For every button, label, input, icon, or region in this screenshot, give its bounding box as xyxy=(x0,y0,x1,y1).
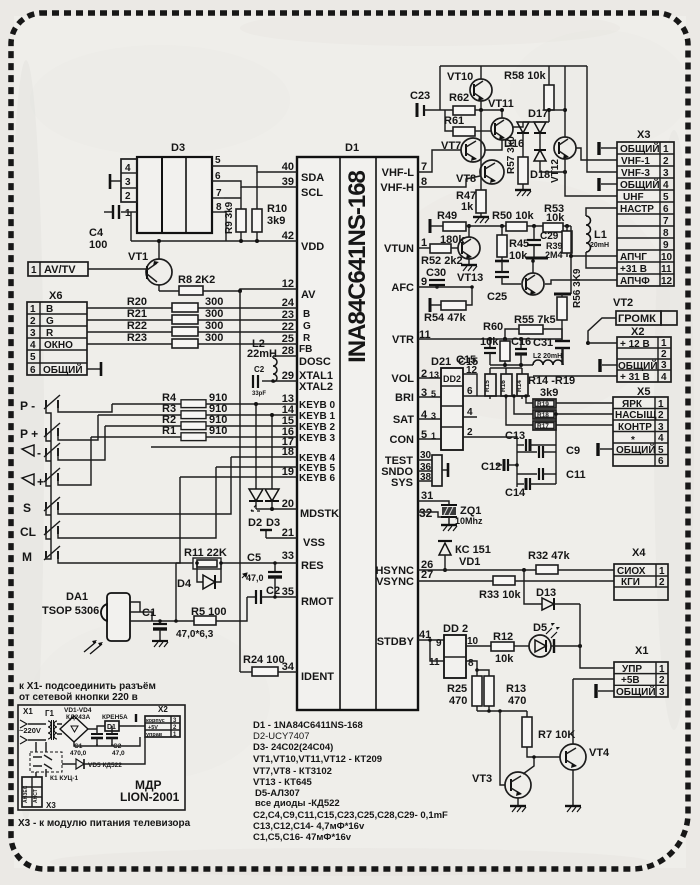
ground bar X3 pin1 xyxy=(599,142,617,155)
svg-text:8: 8 xyxy=(468,658,474,669)
svg-text:корпус: корпус xyxy=(146,718,165,724)
svg-text:MDSTK: MDSTK xyxy=(300,508,339,520)
svg-text:C2: C2 xyxy=(266,585,280,597)
svg-text:SDA: SDA xyxy=(301,172,324,184)
wire KEYB5 row to IC xyxy=(216,466,297,468)
svg-text:M: M xyxy=(22,550,32,564)
svg-text:R18: R18 xyxy=(537,412,549,419)
svg-text:L1: L1 xyxy=(594,229,607,241)
wire +5V row to X1 xyxy=(573,678,614,680)
svg-text:10Mhz: 10Mhz xyxy=(455,516,483,526)
svg-text:C13: C13 xyxy=(505,430,525,442)
wire SCL node to pin7 area xyxy=(224,197,241,199)
svg-text:INA84C641NS-168: INA84C641NS-168 xyxy=(344,170,371,362)
svg-text:2: 2 xyxy=(125,191,131,202)
svg-text:C2,C4,C9,C11,C15,C23,C25,C28,C: C2,C4,C9,C11,C15,C23,C25,C28,C29- 0,1mF xyxy=(253,810,448,821)
resistor R8 2K2 xyxy=(159,274,297,295)
transistor VT4 xyxy=(560,679,610,812)
wires DD2 right pins xyxy=(463,374,530,441)
svg-text:СИОХ: СИОХ xyxy=(617,566,646,577)
transistor VT1 xyxy=(88,239,172,291)
svg-text:R: R xyxy=(303,333,311,344)
connector X1 mains label xyxy=(19,707,41,744)
connector AV/TV box xyxy=(28,262,88,276)
wire KEYB4 row to IC xyxy=(231,456,297,458)
svg-text:3k9: 3k9 xyxy=(540,387,558,399)
svg-text:5: 5 xyxy=(663,192,669,203)
svg-text:АНСТ: АНСТ xyxy=(33,789,39,803)
svg-text:2: 2 xyxy=(661,349,667,360)
diode D16 xyxy=(504,122,529,157)
svg-text:VT10: VT10 xyxy=(447,71,473,83)
svg-text:7: 7 xyxy=(663,216,669,227)
svg-text:C31: C31 xyxy=(533,337,553,349)
svg-text:R16: R16 xyxy=(500,380,507,392)
resistor R57 3k0 xyxy=(506,136,531,196)
connector X5 xyxy=(613,386,668,467)
svg-text:P +: P + xyxy=(20,427,38,441)
svg-text:3k9: 3k9 xyxy=(267,215,285,227)
connector X2 of module xyxy=(145,705,180,738)
svg-text:VHF-L: VHF-L xyxy=(382,167,415,179)
svg-text:1: 1 xyxy=(659,566,665,577)
resistor R18 boxed xyxy=(512,394,613,419)
svg-text:4: 4 xyxy=(30,340,36,351)
svg-text:10k: 10k xyxy=(495,653,514,665)
svg-text:VHF-H: VHF-H xyxy=(380,182,414,194)
svg-text:24: 24 xyxy=(282,297,295,309)
svg-text:40: 40 xyxy=(282,161,294,173)
svg-text:управ: управ xyxy=(146,732,163,738)
capacitor C16 xyxy=(511,336,531,365)
ground tick at D3 pin3 xyxy=(110,174,121,189)
DD2 right pin numbers xyxy=(466,365,478,438)
capacitor C31 xyxy=(533,337,570,365)
wire +12V to X2 xyxy=(586,341,617,345)
svg-text:КС 151: КС 151 xyxy=(455,544,491,556)
wire KEYB6 row to IC xyxy=(180,476,297,478)
svg-text:X3: X3 xyxy=(637,129,650,141)
svg-text:6: 6 xyxy=(663,204,669,215)
svg-text:R14: R14 xyxy=(516,380,523,392)
svg-text:11: 11 xyxy=(661,264,672,275)
connector X3 xyxy=(617,129,674,287)
svg-text:Г1: Г1 xyxy=(45,709,55,718)
button P- xyxy=(20,395,60,413)
svg-text:К1 КУЦ-1: К1 КУЦ-1 xyxy=(50,775,78,782)
svg-text:33pF: 33pF xyxy=(252,391,266,397)
resistor R9 3k9 xyxy=(224,187,246,243)
resistor R5 100 xyxy=(191,606,226,625)
common button bus wire xyxy=(46,408,51,559)
svg-text:3: 3 xyxy=(663,168,669,179)
svg-text:X1: X1 xyxy=(635,645,648,657)
resistor R14 boxed xyxy=(490,368,528,399)
pin labels right column of D1 xyxy=(375,167,414,648)
ground bar X5 pin5 xyxy=(598,443,613,456)
wire C4/pin1 down to VDD rail xyxy=(130,212,132,241)
svg-text:100: 100 xyxy=(89,239,107,251)
svg-text:R60: R60 xyxy=(483,321,503,333)
svg-text:18: 18 xyxy=(282,446,294,458)
svg-text:C13,C12,C14- 4,7мФ*16v: C13,C12,C14- 4,7мФ*16v xyxy=(253,821,365,832)
wire STDBY row xyxy=(418,639,444,641)
svg-text:+ 31 В: + 31 В xyxy=(620,372,650,383)
svg-text:180k: 180k xyxy=(440,234,465,246)
svg-text:R20: R20 xyxy=(127,296,147,308)
svg-text:R21: R21 xyxy=(127,308,147,320)
svg-text:CL: CL xyxy=(20,525,36,539)
vertical bus through VT7 VT8 xyxy=(480,110,482,190)
wire vol+ to KEYB3 row xyxy=(58,437,91,485)
svg-text:D3- 24C02(24C04): D3- 24C02(24C04) xyxy=(253,742,333,753)
wire DD2 pin8 to resistors xyxy=(466,658,489,676)
wire X3 APCHG xyxy=(571,255,617,257)
svg-text:C5: C5 xyxy=(247,552,261,564)
capacitor C12 xyxy=(481,459,519,473)
svg-text:47,0*6,3: 47,0*6,3 xyxy=(176,629,214,640)
svg-text:+31 В: +31 В xyxy=(620,264,647,275)
svg-text:D2: D2 xyxy=(248,517,262,529)
svg-text:C23: C23 xyxy=(410,90,430,102)
svg-text:C2: C2 xyxy=(254,365,265,374)
svg-text:X6: X6 xyxy=(49,290,62,302)
svg-text:23: 23 xyxy=(282,309,294,321)
wire resistor bottoms xyxy=(477,710,527,712)
svg-text:ОБЩИЙ: ОБЩИЙ xyxy=(616,685,656,698)
svg-text:VD1: VD1 xyxy=(459,556,480,568)
resistor R58 10k xyxy=(504,66,554,122)
svg-text:VT13 - КТ645: VT13 - КТ645 xyxy=(253,777,313,788)
wire VT12 to X3 VHF-1 xyxy=(576,148,617,160)
LED D5 xyxy=(529,622,582,657)
svg-text:42: 42 xyxy=(282,230,294,242)
resistor R11 22K xyxy=(176,547,297,569)
svg-text:AFC: AFC xyxy=(391,282,414,294)
svg-text:1: 1 xyxy=(31,265,37,276)
svg-text:LION-2001: LION-2001 xyxy=(120,790,180,804)
svg-text:ОБЩИЙ: ОБЩИЙ xyxy=(616,443,656,456)
resistor R22 300 xyxy=(87,320,297,336)
zener diode VD1 KC151 xyxy=(438,541,491,572)
inductor L2 22mH xyxy=(247,338,297,382)
svg-text:R: R xyxy=(46,328,54,339)
svg-text:RES: RES xyxy=(301,560,324,572)
svg-text:KEYB 3: KEYB 3 xyxy=(299,433,336,444)
svg-text:DA1: DA1 xyxy=(66,591,88,603)
svg-text:АПЧГ: АПЧГ xyxy=(620,252,647,263)
svg-text:-: - xyxy=(37,446,41,460)
IC block DD2 standby xyxy=(428,623,468,678)
connector X2 xyxy=(617,326,671,383)
svg-text:Х3 - к модулю питания телевизо: Х3 - к модулю питания телевизора xyxy=(18,818,191,829)
svg-text:Х2: Х2 xyxy=(158,705,168,714)
svg-text:29: 29 xyxy=(282,370,294,382)
inductor L2 20mH xyxy=(533,348,563,365)
svg-text:20mH: 20mH xyxy=(590,242,609,249)
svg-text:C4: C4 xyxy=(89,227,104,239)
svg-text:+5V: +5V xyxy=(148,725,158,731)
wire pin8 down to VDD rail xyxy=(225,212,227,241)
resistor R20 300 xyxy=(87,296,297,312)
wire P+ to KEYB1 row xyxy=(58,415,98,440)
resistor R39 2M4 xyxy=(545,224,572,260)
svg-text:ОБЩИЙ: ОБЩИЙ xyxy=(618,359,658,372)
IC block DD2 (D21) xyxy=(431,356,478,450)
svg-text:VT7,VT8 - КТ3102: VT7,VT8 - КТ3102 xyxy=(253,766,332,777)
svg-text:31: 31 xyxy=(421,490,433,502)
wire UPR to X1 xyxy=(580,604,614,668)
svg-text:R54 47k: R54 47k xyxy=(424,312,466,324)
wires from DA1 xyxy=(130,602,160,621)
capacitor C15 xyxy=(456,337,496,366)
ground bar under C29 xyxy=(526,257,548,260)
diode D18 xyxy=(530,150,567,181)
svg-text:C25: C25 xyxy=(487,291,507,303)
svg-text:AV/TV: AV/TV xyxy=(44,264,76,276)
svg-text:R45: R45 xyxy=(509,238,529,250)
wire VTR row xyxy=(418,338,562,340)
svg-text:UHF: UHF xyxy=(623,192,644,203)
long vertical AV bus wire xyxy=(239,291,241,672)
svg-text:47,0: 47,0 xyxy=(112,750,125,757)
svg-text:ОБЩИЙ: ОБЩИЙ xyxy=(43,363,83,376)
svg-text:C1,C5,C16- 47мФ*16v: C1,C5,C16- 47мФ*16v xyxy=(253,832,352,843)
svg-text:VSS: VSS xyxy=(303,537,325,549)
svg-text:300: 300 xyxy=(205,332,223,344)
svg-text:AV: AV xyxy=(301,289,316,301)
wire supply row to R5 xyxy=(160,597,247,621)
svg-text:D1 - 1NA84C6411NS-168: D1 - 1NA84C6411NS-168 xyxy=(253,720,363,731)
svg-text:SYS: SYS xyxy=(391,477,413,489)
svg-text:R11 22K: R11 22K xyxy=(184,547,227,559)
svg-text:VDD: VDD xyxy=(301,241,324,253)
svg-text:R9 3k9: R9 3k9 xyxy=(224,201,235,234)
resistor R52 2k2 xyxy=(418,244,463,267)
svg-text:ОБЩИЙ: ОБЩИЙ xyxy=(620,178,660,191)
svg-text:C9: C9 xyxy=(566,445,580,457)
button volume plus xyxy=(22,468,60,489)
diode D3 xyxy=(265,413,280,529)
svg-text:KEYB 2: KEYB 2 xyxy=(299,422,336,433)
svg-text:10k: 10k xyxy=(480,336,499,348)
resistor R17 boxed xyxy=(504,394,613,430)
svg-text:D4: D4 xyxy=(177,578,192,590)
svg-text:УПР: УПР xyxy=(622,664,642,675)
svg-text:3: 3 xyxy=(659,687,665,698)
svg-text:1: 1 xyxy=(421,237,427,249)
svg-text:4: 4 xyxy=(658,433,664,444)
svg-text:5: 5 xyxy=(30,352,36,363)
resistor R2 910 on KEYB2 xyxy=(105,414,297,430)
svg-text:1: 1 xyxy=(663,144,669,155)
svg-text:1: 1 xyxy=(661,338,667,349)
svg-text:XTAL2: XTAL2 xyxy=(299,381,333,393)
resistor R3 910 on KEYB1 xyxy=(98,403,297,419)
capacitor C2 on RMOT pin35 xyxy=(247,585,297,604)
resistor R23 300 xyxy=(87,332,297,348)
svg-text:C11: C11 xyxy=(566,469,586,481)
svg-text:R62: R62 xyxy=(449,92,469,104)
svg-text:R23: R23 xyxy=(127,332,147,344)
svg-text:FB: FB xyxy=(299,344,312,355)
svg-text:300: 300 xyxy=(205,320,223,332)
svg-text:R52 2k2: R52 2k2 xyxy=(421,255,463,267)
svg-text:D2-UCY7407: D2-UCY7407 xyxy=(253,731,310,742)
vertical wire R11 to supply row xyxy=(175,563,177,621)
svg-text:22mH: 22mH xyxy=(247,348,277,360)
svg-text:DD 2: DD 2 xyxy=(443,623,468,635)
svg-text:12: 12 xyxy=(661,276,673,287)
svg-text:B: B xyxy=(46,304,53,315)
wire D3 pin6 to SCL xyxy=(212,181,297,187)
wire lower filter row xyxy=(490,364,533,366)
right cap bus wire xyxy=(555,414,557,484)
svg-text:R58 10k: R58 10k xyxy=(504,70,546,82)
svg-text:R19: R19 xyxy=(537,401,549,408)
capacitor C23 xyxy=(410,90,453,117)
IR receiver DA1 TSOP 5306 xyxy=(42,591,130,654)
module label MDP LION-2001 xyxy=(120,778,180,804)
svg-text:+5В: +5В xyxy=(621,675,640,686)
diode VD5 KD522 xyxy=(62,737,145,769)
ground bar before X2 xyxy=(136,714,145,726)
capacitor C29 xyxy=(527,224,559,257)
svg-text:20: 20 xyxy=(282,498,294,510)
svg-text:12: 12 xyxy=(282,278,294,290)
svg-text:4: 4 xyxy=(661,372,667,383)
svg-text:2: 2 xyxy=(30,316,36,327)
resistor R24 100 xyxy=(240,654,297,676)
resistor R60 10k xyxy=(480,321,510,365)
connector X3 of module xyxy=(22,769,56,810)
svg-text:STDBY: STDBY xyxy=(377,636,415,648)
svg-text:R25: R25 xyxy=(447,683,467,695)
svg-text:10k: 10k xyxy=(509,250,528,262)
svg-text:300: 300 xyxy=(205,308,223,320)
capacitor C25 xyxy=(487,261,521,303)
svg-text:C30: C30 xyxy=(426,267,446,279)
svg-text:CON: CON xyxy=(390,434,415,446)
svg-text:1: 1 xyxy=(659,664,665,675)
resistor R47 1k xyxy=(456,190,489,223)
svg-text:VT1,VT10,VT11,VT12 - КТ209: VT1,VT10,VT11,VT12 - КТ209 xyxy=(253,754,382,765)
diode D13 xyxy=(522,568,580,610)
resistor R54 47k xyxy=(424,285,474,324)
svg-text:R24 100: R24 100 xyxy=(243,654,285,666)
svg-text:KEYB 1: KEYB 1 xyxy=(299,411,336,422)
svg-text:АНЗЕС: АНЗЕС xyxy=(23,785,29,803)
svg-text:ОКНО: ОКНО xyxy=(44,340,73,351)
capacitor C5 47,0 xyxy=(242,552,282,597)
svg-text:1: 1 xyxy=(658,399,664,410)
svg-text:470,0: 470,0 xyxy=(70,750,87,757)
svg-text:27: 27 xyxy=(421,569,433,581)
svg-text:R13: R13 xyxy=(506,683,526,695)
resistor R12 10k xyxy=(466,631,529,665)
resistor R15 boxed xyxy=(484,368,496,399)
button S xyxy=(23,497,60,515)
inductor L1 20mH xyxy=(586,208,617,268)
svg-text:S: S xyxy=(23,501,31,515)
svg-text:R10: R10 xyxy=(267,203,287,215)
wire AFC row xyxy=(418,286,472,288)
resistor R33 10k xyxy=(479,576,521,601)
resistor R25 470 xyxy=(447,676,482,711)
resistor R50 10k xyxy=(492,210,534,231)
svg-text:KEYB 0: KEYB 0 xyxy=(299,400,336,411)
svg-text:VHF-1: VHF-1 xyxy=(621,156,650,167)
eeprom D3 24C02 xyxy=(137,142,212,233)
capacitor C9 xyxy=(517,445,580,458)
svg-text:C12: C12 xyxy=(481,461,501,473)
svg-text:АПЧФ: АПЧФ xyxy=(620,276,650,287)
svg-text:R57 3k0: R57 3k0 xyxy=(506,136,517,174)
PSU module box MDP LION-2001 xyxy=(18,705,185,810)
ground under C1 xyxy=(152,641,168,647)
wire M to KEYB6 row xyxy=(58,477,180,563)
bridge rectifier VD1-VD4 xyxy=(57,707,97,742)
svg-text:2: 2 xyxy=(658,410,664,421)
resistor R7 10K xyxy=(522,711,575,757)
button P+ xyxy=(20,423,60,441)
svg-text:SAT: SAT xyxy=(393,414,414,426)
capacitor C2 33pF xyxy=(252,365,275,397)
transistor VT12 xyxy=(549,66,576,183)
svg-text:R50 10k: R50 10k xyxy=(492,210,534,222)
resistor R56 3K9 xyxy=(554,268,583,341)
D3 pin numbers right 5,6,7,8 xyxy=(213,155,226,213)
wire DOSC pin28 xyxy=(273,355,297,357)
svg-text:R7 10K: R7 10K xyxy=(538,729,575,741)
svg-text:28: 28 xyxy=(282,345,294,357)
svg-text:DD2: DD2 xyxy=(443,374,461,384)
svg-text:470: 470 xyxy=(449,695,467,707)
button CL xyxy=(20,521,60,539)
svg-text:910: 910 xyxy=(209,425,227,437)
pin numbers right side of D1 xyxy=(419,161,439,641)
wire CL to KEYB5 row xyxy=(58,467,216,538)
svg-text:R32 47k: R32 47k xyxy=(528,550,570,562)
svg-text:+ 12 В: + 12 В xyxy=(620,339,650,350)
svg-text:IDENT: IDENT xyxy=(301,671,334,683)
svg-text:1: 1 xyxy=(30,304,36,315)
wire S to KEYB4 row xyxy=(58,457,231,514)
vertical wire tuning node to R56 xyxy=(570,226,572,294)
diode D4 xyxy=(177,561,223,590)
capacitor C14 xyxy=(505,478,556,499)
transistor VT6 APCHF xyxy=(522,259,544,295)
wire VSYNC row xyxy=(418,580,614,582)
svg-text:D13: D13 xyxy=(536,587,556,599)
wire to VT3 base xyxy=(500,711,505,785)
diode D2 xyxy=(248,402,263,529)
wire vol- to KEYB2 row xyxy=(58,426,105,460)
wire MDSTK pin20 xyxy=(251,505,297,511)
wire +31V row to L2 area xyxy=(533,375,617,377)
svg-text:R17: R17 xyxy=(537,423,549,430)
svg-text:VT13: VT13 xyxy=(457,272,483,284)
svg-text:все диоды -КД522: все диоды -КД522 xyxy=(255,798,340,809)
svg-text:R49: R49 xyxy=(437,210,457,222)
resistor R16 boxed xyxy=(500,368,512,399)
svg-text:C14: C14 xyxy=(505,487,526,499)
svg-text:VT2: VT2 xyxy=(613,297,633,309)
svg-text:5: 5 xyxy=(658,445,664,456)
svg-text:ОБЩИЙ: ОБЩИЙ xyxy=(620,142,660,155)
svg-text:VT1: VT1 xyxy=(128,251,148,263)
relay K1 KUTs-1 xyxy=(30,742,78,782)
